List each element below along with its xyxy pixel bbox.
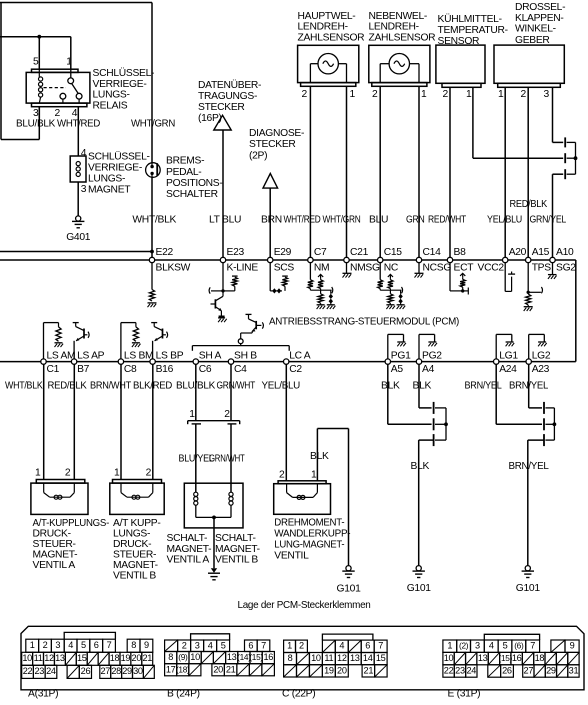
pin A10 xyxy=(550,257,555,262)
svg-text:22: 22 xyxy=(444,665,454,675)
connector C key bracket xyxy=(322,634,373,640)
svg-text:3: 3 xyxy=(195,641,200,651)
wire RED/BLK to A15 xyxy=(527,87,529,260)
svg-text:E29: E29 xyxy=(274,247,292,258)
svg-text:A(31P): A(31P) xyxy=(28,689,58,700)
pin C21 xyxy=(344,257,349,262)
wire top feed xyxy=(0,2,152,4)
svg-text:LENDREH-: LENDREH- xyxy=(298,22,348,33)
svg-text:2: 2 xyxy=(224,409,230,420)
diode network SCS xyxy=(269,263,271,291)
svg-text:LUNGS-: LUNGS- xyxy=(93,90,130,101)
svg-text:DIAGNOSE-: DIAGNOSE- xyxy=(249,128,304,139)
svg-text:WHT/RED: WHT/RED xyxy=(57,118,100,129)
svg-text:12: 12 xyxy=(44,653,54,663)
network NM input xyxy=(309,263,311,280)
svg-text:PEDAL-: PEDAL- xyxy=(166,167,201,178)
svg-text:23: 23 xyxy=(455,665,465,675)
PCM right edge xyxy=(575,260,577,362)
svg-text:29: 29 xyxy=(122,666,132,676)
svg-text:VENTIL A: VENTIL A xyxy=(167,554,210,565)
ground NMSG xyxy=(346,263,348,274)
wire magnet to ground xyxy=(77,182,79,216)
svg-text:GRN/WHT: GRN/WHT xyxy=(209,454,245,465)
svg-text:STECKER: STECKER xyxy=(249,139,296,150)
svg-text:A/T-KUPPLUNGS-: A/T-KUPPLUNGS- xyxy=(33,518,110,529)
svg-text:10: 10 xyxy=(22,653,32,663)
svg-text:GRN: GRN xyxy=(406,215,425,226)
svg-text:HAUPTWEL-: HAUPTWEL- xyxy=(298,11,356,22)
svg-text:RED/WHT: RED/WHT xyxy=(428,215,467,226)
svg-text:SCHALTER: SCHALTER xyxy=(166,189,218,200)
wire BLK to G101 xyxy=(419,439,434,441)
wire BRN/YEL to G101 xyxy=(528,439,544,441)
pin B16 xyxy=(150,359,155,364)
svg-text:NMSG: NMSG xyxy=(350,262,380,273)
svg-text:SG2: SG2 xyxy=(556,262,576,273)
wire TPS pin3 to joint xyxy=(552,87,554,142)
svg-text:20: 20 xyxy=(213,664,223,674)
sensor KUEHLMITTELTEMPERATURSENSOR xyxy=(436,45,485,83)
resistor LS BM xyxy=(120,323,122,359)
connector B row3 xyxy=(165,664,177,676)
wire relay pin4 WHT/RED xyxy=(77,107,79,156)
svg-text:C21: C21 xyxy=(350,247,369,258)
connector C row1 xyxy=(284,640,296,652)
svg-text:MAGNET-: MAGNET- xyxy=(113,560,158,571)
svg-text:LG1: LG1 xyxy=(499,350,518,361)
driver SH output bracket xyxy=(192,345,289,347)
svg-text:SENSOR: SENSOR xyxy=(438,36,480,47)
svg-text:C15: C15 xyxy=(384,247,403,258)
wire A23 to LG joint xyxy=(528,364,530,408)
wire BRN to E29 xyxy=(269,188,271,260)
bracket PG2 ground xyxy=(418,334,420,359)
svg-text:(16P): (16P) xyxy=(198,113,222,124)
node relay pin5 junction xyxy=(37,35,41,39)
svg-text:27: 27 xyxy=(100,666,110,676)
svg-text:4: 4 xyxy=(81,148,87,159)
relay SCHLUESSEL-VERRIEGELUNGS-RELAIS box xyxy=(26,72,90,103)
svg-text:13: 13 xyxy=(55,653,65,663)
valve A/T clutch pressure control A xyxy=(36,480,85,484)
wire A24 to LG joint xyxy=(495,364,497,424)
wire GRN/WHT C4 to connector xyxy=(230,364,232,420)
connector A key bracket xyxy=(64,632,115,639)
svg-text:19: 19 xyxy=(324,665,334,675)
AC source mainshaft speed sensor xyxy=(298,45,359,82)
svg-text:11: 11 xyxy=(34,653,43,663)
connector B row2 xyxy=(165,652,177,664)
wire GRN/YEL to A10 xyxy=(553,173,564,175)
wire BLK/RED B16 to valve B pin2 xyxy=(152,364,154,479)
svg-text:WINKEL-: WINKEL- xyxy=(515,24,556,35)
svg-text:A4: A4 xyxy=(422,364,435,375)
svg-text:3: 3 xyxy=(475,641,480,651)
ground NCSG xyxy=(418,263,420,274)
svg-text:BLK: BLK xyxy=(411,461,430,472)
svg-text:VENTIL B: VENTIL B xyxy=(113,570,156,581)
ground G101 right xyxy=(525,566,530,571)
svg-text:RELAIS: RELAIS xyxy=(93,101,128,112)
svg-text:A23: A23 xyxy=(532,364,550,375)
svg-text:5: 5 xyxy=(221,641,226,651)
transistor K-LINE xyxy=(214,299,216,308)
connector C row2 xyxy=(284,653,297,665)
svg-text:VENTIL A: VENTIL A xyxy=(33,560,76,571)
wire A4 to PG joint xyxy=(418,364,420,408)
svg-text:1: 1 xyxy=(189,409,195,420)
svg-text:23: 23 xyxy=(34,666,44,676)
wire ECT pin1 to joint xyxy=(472,87,474,158)
svg-text:A20: A20 xyxy=(509,247,527,258)
svg-text:WANDLERKUPP-: WANDLERKUPP- xyxy=(274,529,350,540)
svg-text:2: 2 xyxy=(521,89,527,100)
svg-text:9: 9 xyxy=(144,640,149,650)
wire RED/WHT to B8 xyxy=(449,87,451,260)
connector E key bracket xyxy=(484,634,539,640)
svg-text:TPS: TPS xyxy=(532,262,552,273)
svg-text:24: 24 xyxy=(467,665,477,675)
wire BLU/YEL to solenoid A xyxy=(195,424,197,492)
svg-text:B7: B7 xyxy=(77,364,90,375)
svg-text:YEL/BLU: YEL/BLU xyxy=(262,381,301,392)
svg-text:C4: C4 xyxy=(234,364,247,375)
svg-text:GRN/YEL: GRN/YEL xyxy=(530,215,567,226)
svg-text:5: 5 xyxy=(503,641,508,651)
svg-text:B (24P): B (24P) xyxy=(167,689,200,700)
svg-text:BLK/RED: BLK/RED xyxy=(133,381,172,392)
svg-text:NC: NC xyxy=(384,262,399,273)
svg-text:KLAPPEN-: KLAPPEN- xyxy=(515,13,564,24)
solenoid SCHLUESSEL-VERRIEGELUNGS-MAGNET xyxy=(70,156,86,182)
svg-text:9: 9 xyxy=(570,641,575,651)
svg-text:4: 4 xyxy=(208,641,213,651)
joint connector LG BRN/YEL xyxy=(543,402,545,414)
svg-text:BLKSW: BLKSW xyxy=(156,262,191,273)
svg-text:WHT/GRN: WHT/GRN xyxy=(323,215,361,226)
svg-text:NCSG: NCSG xyxy=(423,262,452,273)
svg-text:BLK: BLK xyxy=(413,381,432,392)
svg-text:21: 21 xyxy=(142,653,152,663)
sensor DROSSELKLAPPENWINKELGEBER xyxy=(494,45,564,83)
ground SG2 xyxy=(552,263,554,275)
pin E22 xyxy=(149,257,154,262)
wire WHT/RED to C7 xyxy=(309,86,311,260)
svg-text:8: 8 xyxy=(168,652,173,662)
svg-text:2: 2 xyxy=(182,641,187,651)
svg-text:19: 19 xyxy=(121,653,131,663)
box shift solenoids xyxy=(184,483,243,528)
svg-text:LUNGS-: LUNGS- xyxy=(113,528,150,539)
pullup ECT xyxy=(449,263,451,291)
bracket LG2 ground xyxy=(528,334,530,359)
svg-text:SCHLÜSSEL-: SCHLÜSSEL- xyxy=(93,67,155,79)
svg-text:E23: E23 xyxy=(227,247,245,258)
svg-text:A5: A5 xyxy=(391,364,404,375)
coil shift solenoid A xyxy=(194,492,198,496)
svg-text:VENTIL B: VENTIL B xyxy=(215,554,258,565)
svg-text:15: 15 xyxy=(376,653,386,663)
svg-text:STEUER-: STEUER- xyxy=(33,539,76,550)
svg-text:VERRIEGE-: VERRIEGE- xyxy=(88,162,142,173)
svg-text:KÜHLMITTEL-: KÜHLMITTEL- xyxy=(438,13,502,25)
svg-text:1: 1 xyxy=(114,467,120,478)
svg-text:(2): (2) xyxy=(459,641,469,651)
svg-text:26: 26 xyxy=(502,665,512,675)
ground G101 center xyxy=(416,566,421,571)
joint connector sensor ground xyxy=(564,137,566,147)
pin E29 xyxy=(268,257,273,262)
wire GRN to C14 xyxy=(418,86,420,260)
relay coil xyxy=(39,77,43,81)
svg-text:1: 1 xyxy=(30,640,35,650)
svg-text:C8: C8 xyxy=(124,364,137,375)
connector B row1 xyxy=(165,640,178,652)
svg-text:10: 10 xyxy=(444,653,454,663)
connector DATENUEBERTRAGUNGS-STECKER 16P triangle xyxy=(214,115,231,130)
svg-text:BLK: BLK xyxy=(310,451,329,462)
wire relay pin3 BLU/BLK xyxy=(38,107,40,118)
svg-text:B16: B16 xyxy=(156,364,174,375)
pin A4 xyxy=(416,359,421,364)
svg-text:BREMS-: BREMS- xyxy=(166,156,204,167)
svg-text:NEBENWEL-: NEBENWEL- xyxy=(369,11,428,22)
pin C7 xyxy=(308,257,313,262)
pin E23 xyxy=(220,257,225,262)
svg-text:A10: A10 xyxy=(556,247,574,258)
svg-text:(18): (18) xyxy=(176,664,190,674)
svg-text:DRUCK-: DRUCK- xyxy=(113,539,151,550)
svg-text:(15): (15) xyxy=(249,652,263,662)
svg-text:1: 1 xyxy=(350,89,356,100)
svg-text:18: 18 xyxy=(110,653,120,663)
svg-text:G101: G101 xyxy=(407,583,432,594)
svg-text:BLU: BLU xyxy=(369,215,388,226)
svg-text:12: 12 xyxy=(337,653,347,663)
pin C8 xyxy=(118,359,123,364)
svg-text:LS BP: LS BP xyxy=(156,350,184,361)
svg-text:13: 13 xyxy=(227,652,237,662)
svg-text:27: 27 xyxy=(524,665,534,675)
svg-text:YEL/BLU: YEL/BLU xyxy=(487,215,522,226)
wire BLU/BLK C6 to connector xyxy=(195,364,197,420)
svg-text:WHT/RED: WHT/RED xyxy=(284,215,321,226)
relay mech dashed link xyxy=(44,87,67,89)
pin A5 xyxy=(385,359,390,364)
svg-text:2: 2 xyxy=(372,89,378,100)
svg-text:G101: G101 xyxy=(337,583,362,594)
wire LT BLU to E23 xyxy=(222,130,224,260)
connector A row2 xyxy=(22,652,33,665)
pin A24 xyxy=(494,359,499,364)
svg-text:1: 1 xyxy=(447,641,452,651)
svg-text:30: 30 xyxy=(133,666,143,676)
ground transmission case xyxy=(211,568,217,573)
svg-text:1: 1 xyxy=(421,89,427,100)
svg-text:DRUCK-: DRUCK- xyxy=(33,528,71,539)
svg-text:C7: C7 xyxy=(314,247,327,258)
divider TPS input xyxy=(527,263,529,293)
svg-text:ZAHLSENSOR: ZAHLSENSOR xyxy=(298,32,365,43)
svg-text:(9): (9) xyxy=(178,652,188,662)
svg-text:LT BLU: LT BLU xyxy=(209,215,241,226)
pin C15 xyxy=(378,257,383,262)
svg-text:21: 21 xyxy=(364,665,374,675)
svg-text:7: 7 xyxy=(261,641,266,651)
pin B7 xyxy=(71,359,76,364)
svg-text:2: 2 xyxy=(65,467,71,478)
svg-text:C1: C1 xyxy=(47,364,60,375)
svg-text:15: 15 xyxy=(77,653,87,663)
svg-text:2: 2 xyxy=(279,470,285,481)
svg-text:7: 7 xyxy=(378,641,383,651)
svg-text:ANTRIEBSSTRANG-STEUERMODUL (PC: ANTRIEBSSTRANG-STEUERMODUL (PCM) xyxy=(269,317,459,328)
svg-text:14: 14 xyxy=(363,653,373,663)
svg-text:1: 1 xyxy=(66,57,72,68)
svg-text:10: 10 xyxy=(311,653,321,663)
joint connector PG BLK xyxy=(433,402,435,414)
svg-text:SCS: SCS xyxy=(274,262,295,273)
svg-text:3: 3 xyxy=(55,640,60,650)
wire GRN/WHT to solenoid B xyxy=(230,424,232,492)
svg-text:1: 1 xyxy=(498,89,504,100)
svg-text:31: 31 xyxy=(569,665,579,675)
svg-text:C2: C2 xyxy=(289,364,302,375)
pin C2 xyxy=(284,359,289,364)
pin B8 xyxy=(447,257,452,262)
wire WHT/BLK C1 to valve A pin1 xyxy=(43,364,45,479)
wire WHT/BLK to E22 xyxy=(151,177,153,260)
svg-text:1: 1 xyxy=(466,89,472,100)
svg-text:3: 3 xyxy=(544,89,550,100)
wire relay pin5 xyxy=(38,37,40,69)
connector A row3 xyxy=(22,665,34,678)
connector DIAGNOSE-STECKER 2P triangle xyxy=(263,174,278,189)
svg-text:MAGNET: MAGNET xyxy=(88,184,131,195)
svg-text:WHT/BLK: WHT/BLK xyxy=(132,215,176,226)
svg-text:3: 3 xyxy=(81,184,87,195)
svg-text:G101: G101 xyxy=(516,583,541,594)
wire WHT/GRN to C21 xyxy=(346,86,348,260)
wire relay feed horizontal xyxy=(0,36,71,38)
connector A row1 xyxy=(26,639,39,652)
svg-text:6: 6 xyxy=(248,641,253,651)
svg-text:G401: G401 xyxy=(66,232,91,243)
network NC input xyxy=(379,263,381,280)
svg-text:SH A: SH A xyxy=(199,350,222,361)
svg-text:7: 7 xyxy=(107,640,112,650)
svg-text:VERRIEGE-: VERRIEGE- xyxy=(93,79,147,90)
wire BLKSW feed from left xyxy=(0,251,152,253)
svg-text:1: 1 xyxy=(287,641,292,651)
svg-text:SH B: SH B xyxy=(234,350,257,361)
svg-text:7: 7 xyxy=(530,641,535,651)
svg-text:TEMPERATUR-: TEMPERATUR- xyxy=(438,25,508,36)
pin C1 xyxy=(41,359,46,364)
svg-text:BLU/BLK: BLU/BLK xyxy=(16,118,55,129)
svg-text:SCHALT-: SCHALT- xyxy=(215,533,256,544)
svg-text:29: 29 xyxy=(546,665,556,675)
svg-text:Lage der PCM-Steckerklemmen: Lage der PCM-Steckerklemmen xyxy=(238,600,372,611)
svg-text:C (22P): C (22P) xyxy=(282,689,315,700)
svg-text:A24: A24 xyxy=(499,364,517,375)
housing PCM connectors xyxy=(21,626,584,690)
svg-text:BRN: BRN xyxy=(261,215,282,226)
svg-text:1: 1 xyxy=(35,467,41,478)
connector B key bracket xyxy=(191,634,230,640)
svg-text:RED/BLK: RED/BLK xyxy=(510,199,548,210)
svg-text:10: 10 xyxy=(190,652,200,662)
pin A20 xyxy=(503,257,508,262)
wire YEL/BLU C2 to torque conv clutch valve xyxy=(285,364,287,481)
svg-text:E (31P): E (31P) xyxy=(448,689,481,700)
svg-text:BRN/WHT: BRN/WHT xyxy=(90,381,132,392)
svg-text:11: 11 xyxy=(324,653,333,663)
svg-text:1: 1 xyxy=(311,470,317,481)
svg-text:B8: B8 xyxy=(454,247,467,258)
wire A5 to PG joint xyxy=(387,364,389,424)
svg-text:SCHALT-: SCHALT- xyxy=(167,533,208,544)
svg-text:PG2: PG2 xyxy=(422,350,442,361)
svg-text:GRN/WHT: GRN/WHT xyxy=(217,381,256,392)
svg-text:18: 18 xyxy=(535,653,545,663)
transistor LS AP xyxy=(73,341,75,359)
supply VCC2 internal xyxy=(504,263,506,292)
svg-text:LS AP: LS AP xyxy=(77,350,105,361)
svg-text:LUNGS-: LUNGS- xyxy=(88,173,125,184)
svg-text:SCHLÜSSEL-: SCHLÜSSEL- xyxy=(88,150,150,162)
svg-text:DREHMOMENT-: DREHMOMENT- xyxy=(274,518,344,529)
svg-text:RED/BLK: RED/BLK xyxy=(48,381,87,392)
bracket PG1 ground xyxy=(387,334,389,359)
svg-text:13: 13 xyxy=(478,653,488,663)
svg-text:MAGNET-: MAGNET- xyxy=(167,544,212,555)
svg-text:LUNG-MAGNET-: LUNG-MAGNET- xyxy=(274,539,344,550)
coil shift solenoid B xyxy=(229,492,233,496)
svg-text:4: 4 xyxy=(339,641,344,651)
svg-text:DATENÜBER-: DATENÜBER- xyxy=(198,79,261,91)
ground G401 xyxy=(76,216,81,221)
svg-text:BLK: BLK xyxy=(381,381,400,392)
svg-text:C14: C14 xyxy=(423,247,442,258)
svg-text:TRAGUNGS-: TRAGUNGS- xyxy=(198,91,257,102)
svg-text:17: 17 xyxy=(166,664,176,674)
svg-text:STEUER-: STEUER- xyxy=(113,549,156,560)
svg-text:6: 6 xyxy=(94,640,99,650)
svg-text:DROSSEL-: DROSSEL- xyxy=(515,2,565,13)
svg-text:16: 16 xyxy=(263,652,273,662)
pin C6 xyxy=(193,359,198,364)
switch brake pedal position xyxy=(146,163,161,178)
connector E row3 xyxy=(443,665,454,677)
pin C4 xyxy=(228,359,233,364)
resistor LS AM xyxy=(43,323,45,359)
svg-text:NM: NM xyxy=(314,262,329,273)
svg-text:C6: C6 xyxy=(199,364,212,375)
svg-text:LENDREH-: LENDREH- xyxy=(369,22,419,33)
svg-text:24: 24 xyxy=(46,666,56,676)
svg-text:MAGNET-: MAGNET- xyxy=(33,549,78,560)
svg-text:A/T KUPP-: A/T KUPP- xyxy=(113,518,160,529)
svg-text:LG2: LG2 xyxy=(532,350,551,361)
pin C14 xyxy=(416,257,421,262)
svg-text:LS AM: LS AM xyxy=(47,350,76,361)
wire BLU/BLK loop left xyxy=(38,107,40,140)
svg-text:LS BM: LS BM xyxy=(124,350,153,361)
transistor LS BP xyxy=(152,341,154,359)
svg-text:20: 20 xyxy=(132,653,142,663)
